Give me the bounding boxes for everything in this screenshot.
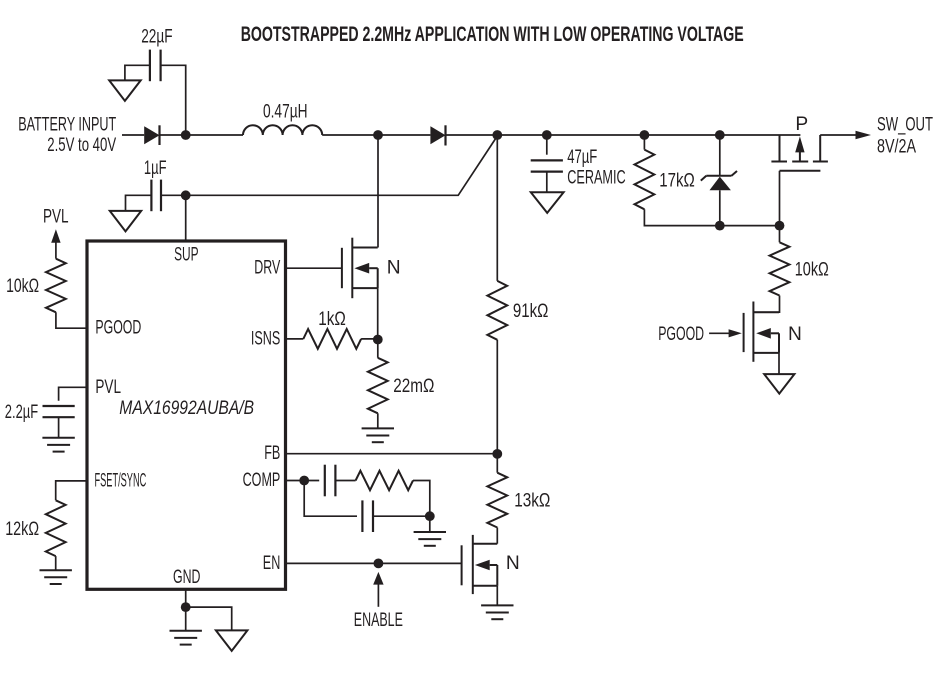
svg-text:FB: FB [264,443,280,464]
resistor COMP [356,471,413,490]
zener diode [701,171,737,181]
wire rail to 91k [496,135,498,281]
ground 47uF [531,192,564,213]
svg-text:17kΩ: 17kΩ [659,170,695,191]
wire PGOOD FET source to ground [778,353,780,374]
svg-text:1kΩ: 1kΩ [318,309,346,330]
resistor 22m sense [368,358,388,414]
svg-text:91kΩ: 91kΩ [513,301,549,322]
svg-text:47µF: 47µF [567,147,597,168]
wire FB pin to FB node [286,453,498,455]
svg-text:12kΩ: 12kΩ [5,519,39,540]
ground enable FET [481,605,513,619]
wire 17k to gate node [644,209,779,225]
capacitor 2.2uF [43,406,75,417]
diode D2 [430,125,445,145]
wire gate node to 10k [779,226,781,243]
arrow SW_OUT [820,131,871,140]
wire COMP pin [286,480,320,482]
wire rail to 47uF [546,135,548,155]
wire 1uF to ground [126,195,152,211]
capacitor COMP series [325,465,336,497]
ground 22m [362,428,394,442]
wire 47uF to ground [546,172,548,193]
junction rail at zener [715,130,725,140]
resistor 1k ISNS [303,329,361,349]
wire to SUP pin [185,195,187,241]
wire COMP cap to resistor [335,480,355,482]
ground 12k [40,570,72,584]
wire COMP node to ground [429,516,431,532]
junction ISNS node [373,335,383,345]
wire 91k to FB node [496,340,498,454]
wire DRV pin to gate [286,267,342,269]
svg-text:FSET/SYNC: FSET/SYNC [95,470,147,491]
wire DRV source to sense node [377,288,379,339]
wire COMP resistor to lower node [413,481,430,517]
svg-text:10kΩ: 10kΩ [6,276,39,297]
junction PMOS gate node [775,221,785,231]
resistor 10k PGOOD pullup [46,259,66,313]
resistor 12k FSET [46,500,66,556]
ground GND power [216,630,248,651]
junction ENABLE node [374,559,384,569]
ground 2.2uF [42,438,74,452]
op-amp U1 MAX16992AUBA/B box [87,241,286,589]
transistor N DRV [342,238,378,299]
junction GND node [181,602,191,612]
wire EN pin to enable FET gate [286,562,462,564]
svg-text:2.5V to 40V: 2.5V to 40V [47,135,116,156]
capacitor 47uF [531,160,563,171]
resistor 17k [635,150,655,210]
svg-text:N: N [788,324,802,345]
resistor 91k feedback top [487,281,507,340]
wire 1k to sense node [361,338,378,340]
svg-text:8V/2A: 8V/2A [877,136,916,157]
wire sense node to 22m [377,340,379,358]
wire zener to gate node [719,190,721,225]
wire ISNS pin [286,338,304,340]
wire 22uF to ground [125,65,150,80]
arrow to PVL [51,229,60,258]
wire 10k to PGOOD FET drain [753,296,779,313]
wire 12k to ground [55,556,57,570]
svg-text:GND: GND [173,567,200,588]
resistor 10k PGOOD drain [770,242,790,295]
ground COMP [414,532,446,546]
ground PGOOD FET [764,374,794,394]
svg-text:PGOOD: PGOOD [658,324,704,345]
wire output rail [446,134,801,136]
svg-text:1µF: 1µF [144,158,167,179]
wire battery input to D1 [122,134,144,136]
svg-text:2.2µF: 2.2µF [5,402,38,423]
wire 13k to enable FET drain [496,528,498,544]
inductor 0.47uH [243,125,322,135]
svg-text:PVL: PVL [95,377,121,398]
svg-text:N: N [387,258,401,279]
wire FSET pin to 12k [56,481,87,500]
wire inductor to D2 [322,134,430,136]
ground 1uF [110,211,141,232]
capacitor COMP parallel [362,500,373,532]
svg-text:MAX16992AUBA/B: MAX16992AUBA/B [119,398,254,419]
wire switch node to DRV FET drain [377,135,379,248]
svg-text:22mΩ: 22mΩ [393,376,434,397]
svg-text:PGOOD: PGOOD [95,318,141,339]
junction rail at bootstrap [492,130,502,140]
svg-text:13kΩ: 13kΩ [514,491,550,512]
svg-text:P: P [795,114,808,135]
arrow ENABLE [373,572,383,607]
svg-text:ISNS: ISNS [251,328,280,349]
junction rail at 47uF [542,130,552,140]
junction rail at 17k [640,130,650,140]
wire bootstrap net [161,136,497,195]
wire 22uF to input node [161,65,186,135]
wire FB node to 13k [496,454,498,473]
capacitor 1uF [151,180,161,212]
svg-text:10kΩ: 10kΩ [795,260,829,281]
junction COMP ground node [425,511,435,521]
svg-text:DRV: DRV [254,258,280,279]
junction FB node [492,449,502,459]
wire 2.2uF to ground [58,417,60,438]
wire rail to 17k [643,135,645,150]
svg-text:22µF: 22µF [141,26,172,47]
junction input node [181,130,191,140]
wire PMOS gate down [779,171,781,226]
wire PVL pin to 2.2uF [59,387,87,400]
arrow PGOOD [709,329,742,337]
svg-text:ENABLE: ENABLE [354,610,403,631]
wire GND to power ground [186,607,232,630]
junction SUP node [181,190,191,200]
wire COMP lower branch [304,481,357,517]
wire 22m to ground [377,413,379,428]
svg-text:SUP: SUP [174,245,199,266]
transistor N enable [462,535,498,594]
svg-text:BOOTSTRAPPED 2.2MHz APPLICATIO: BOOTSTRAPPED 2.2MHz APPLICATION WITH LOW… [241,23,744,46]
svg-text:PVL: PVL [43,206,69,227]
junction COMP node [299,476,309,486]
wire 10k to PGOOD pin [56,312,87,328]
wire D1 to inductor [160,134,244,136]
capacitor 22uF [150,50,161,82]
ground GND signal [170,631,202,645]
svg-text:SW_OUT: SW_OUT [877,115,933,136]
svg-text:EN: EN [263,553,281,574]
transistor P output [771,135,828,171]
svg-text:COMP: COMP [243,470,281,491]
junction switch node [373,130,383,140]
wire rail to zener [719,135,721,176]
svg-text:CERAMIC: CERAMIC [567,167,626,188]
junction zener bottom [715,221,725,231]
svg-text:0.47µH: 0.47µH [263,102,308,123]
diode D1 [144,125,159,145]
svg-text:N: N [506,553,520,574]
svg-text:BATTERY INPUT: BATTERY INPUT [18,115,116,136]
wire GND pin down [185,589,187,630]
ground 22uF [109,80,141,101]
transistor N PGOOD [744,302,779,362]
resistor 13k feedback bottom [487,473,507,528]
wire COMP parallel cap to node [373,515,430,517]
wire enable FET source to ground [496,586,498,605]
